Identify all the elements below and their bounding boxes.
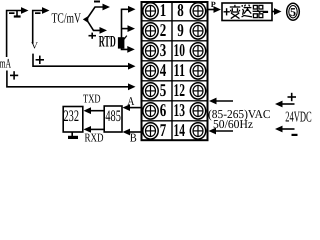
svg-text:4: 4	[160, 60, 167, 80]
svg-text:P: P	[211, 0, 216, 9]
svg-text:9: 9	[177, 20, 184, 40]
svg-text:V: V	[31, 42, 38, 52]
svg-text:14: 14	[174, 120, 186, 140]
svg-text:A: A	[127, 94, 134, 108]
svg-text:5: 5	[160, 80, 167, 100]
svg-text:mA: mA	[0, 56, 11, 71]
svg-text:13: 13	[174, 100, 186, 120]
svg-text:24VDC: 24VDC	[285, 109, 312, 125]
svg-text:50/60Hz: 50/60Hz	[213, 117, 253, 131]
svg-text:2: 2	[160, 20, 167, 40]
svg-text:12: 12	[174, 80, 186, 100]
svg-text:232: 232	[64, 108, 80, 125]
svg-text:TC/mV: TC/mV	[52, 11, 82, 26]
svg-text:3: 3	[160, 40, 167, 60]
svg-text:10: 10	[174, 40, 186, 60]
svg-text:11: 11	[174, 60, 186, 80]
svg-text:485: 485	[105, 108, 121, 125]
svg-text:RXD: RXD	[85, 131, 104, 144]
svg-text:TXD: TXD	[83, 92, 101, 106]
svg-text:1: 1	[160, 0, 167, 20]
svg-text:5: 5	[290, 5, 296, 19]
svg-text:RTD: RTD	[99, 34, 116, 51]
svg-text:7: 7	[160, 120, 167, 140]
svg-text:8: 8	[177, 0, 184, 20]
svg-text:6: 6	[160, 100, 167, 120]
svg-text:B: B	[130, 131, 137, 144]
